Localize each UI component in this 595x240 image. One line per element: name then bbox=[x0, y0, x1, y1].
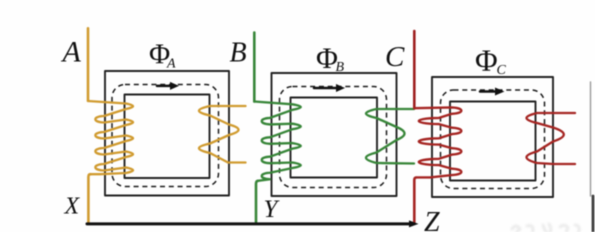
core 2 window (inner edge) bbox=[291, 98, 378, 178]
core 1 window (inner edge) bbox=[125, 95, 210, 179]
svg-text:B: B bbox=[336, 60, 345, 75]
wire Y down-lead bbox=[256, 181, 258, 223]
wire Z down-lead bbox=[414, 178, 416, 223]
core 1 outer edge bbox=[105, 71, 229, 196]
neutral bus arrowhead bbox=[409, 220, 419, 227]
core 3 window (inner edge) bbox=[450, 102, 536, 181]
core 3 flux path dashed bbox=[441, 90, 545, 189]
grey border line lower bbox=[592, 196, 595, 232]
svg-text:C: C bbox=[385, 41, 405, 73]
wire X down-lead bbox=[88, 174, 90, 222]
watermark bbox=[512, 224, 579, 237]
svg-text:X: X bbox=[64, 193, 81, 219]
core 2 flux arrow bbox=[314, 87, 337, 90]
core 1 flux arrow bbox=[157, 85, 171, 88]
winding T3 secondary (core 3 right limb) with terminals bbox=[527, 113, 576, 164]
winding T1 primary (core 1 left limb) bbox=[88, 101, 133, 174]
wire phase B lead bbox=[253, 33, 256, 102]
winding T1 secondary (core 1 right limb) with terminals bbox=[199, 106, 246, 163]
wire phase C lead bbox=[413, 31, 416, 108]
core 3 outer edge bbox=[432, 77, 553, 197]
svg-text:Φ: Φ bbox=[475, 43, 498, 78]
winding T3 primary (core 3 left limb) bbox=[414, 107, 461, 177]
grey border line upper bbox=[590, 82, 592, 196]
svg-text:A: A bbox=[61, 36, 82, 69]
core 2 outer edge bbox=[272, 73, 397, 196]
core 2 flux path dashed bbox=[280, 87, 387, 188]
svg-text:C: C bbox=[497, 63, 507, 78]
wire phase A lead bbox=[87, 28, 90, 101]
neutral bus linking X Y Z bbox=[87, 222, 411, 225]
winding T2 secondary (core 2 right limb) with terminals bbox=[366, 109, 414, 164]
winding T2 primary (core 2 left limb) bbox=[254, 102, 300, 181]
core 3 flux arrow bbox=[480, 90, 496, 93]
core 1 flux path dashed bbox=[112, 85, 219, 187]
svg-text:Z: Z bbox=[424, 207, 440, 232]
svg-text:B: B bbox=[230, 38, 247, 69]
svg-text:Y: Y bbox=[264, 196, 281, 223]
svg-text:A: A bbox=[166, 57, 176, 72]
